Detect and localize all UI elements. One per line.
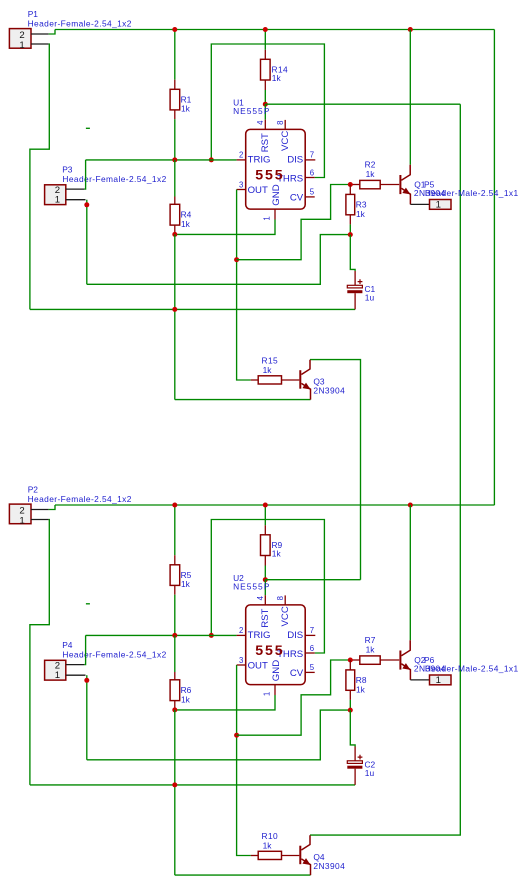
wire Q3 collector to VCC-B rail riser [310, 360, 361, 580]
svg-text:TRIG: TRIG [248, 155, 271, 166]
svg-text:3: 3 [239, 656, 243, 665]
node top rail / R5 [172, 503, 177, 508]
node top rail / R1 [172, 27, 177, 32]
svg-text:CV: CV [290, 668, 304, 679]
svg-text:Header-Female-2.54_1x2: Header-Female-2.54_1x2 [28, 494, 132, 504]
wire P4 pin2 riser [84, 635, 85, 664]
wire VCC-A rail riser to Q4 collector [310, 104, 460, 835]
svg-text:Header-Male-2.54_1x1: Header-Male-2.54_1x1 [425, 664, 519, 674]
svg-text:NE555P: NE555P [233, 106, 270, 116]
wire OUT net [237, 190, 251, 381]
resistor R9 [264, 505, 266, 525]
label C2 plus [358, 755, 363, 760]
svg-text:DIS: DIS [287, 155, 303, 166]
wire P1 pin2 to top rail [49, 30, 55, 35]
wire P4 pin1 drop [86, 675, 88, 760]
svg-text:Header-Female-2.54_1x2: Header-Female-2.54_1x2 [62, 174, 166, 184]
svg-text:5: 5 [310, 663, 315, 672]
svg-text:RST: RST [260, 608, 271, 627]
svg-text:6: 6 [310, 168, 314, 177]
resistor R14 [264, 30, 266, 50]
svg-text:VCC: VCC [280, 131, 291, 151]
svg-text:1k: 1k [366, 169, 376, 179]
svg-text:R3: R3 [356, 200, 367, 210]
svg-text:1: 1 [55, 195, 60, 206]
svg-text:1k: 1k [366, 644, 376, 654]
svg-text:6: 6 [310, 644, 314, 653]
svg-text:R6: R6 [181, 685, 192, 695]
resistor R7 [350, 659, 360, 661]
pin 4 RST stub [264, 595, 266, 605]
pin 4 RST stub [264, 120, 266, 130]
pin 3 OUT stub [237, 189, 246, 191]
wire emitter rail [175, 874, 311, 876]
svg-text:Header-Female-2.54_1x2: Header-Female-2.54_1x2 [28, 19, 132, 29]
pin 1 GND stub [274, 209, 276, 219]
resistor R8 [349, 660, 351, 670]
svg-text:R8: R8 [356, 675, 367, 685]
wire top rail [55, 29, 494, 31]
svg-text:TRIG: TRIG [248, 630, 271, 641]
pin 2 TRIG stub [237, 634, 246, 636]
svg-text:VCC: VCC [280, 606, 291, 626]
wire P3 pin1 drop [86, 200, 88, 285]
node GND column / cap rail [172, 782, 177, 787]
svg-text:1u: 1u [365, 293, 375, 303]
svg-text:OUT: OUT [248, 661, 268, 672]
svg-text:1: 1 [263, 692, 272, 696]
wire pin4 link [264, 104, 266, 120]
resistor R1 [174, 30, 176, 80]
svg-text:3: 3 [239, 180, 243, 189]
svg-text:Header-Female-2.54_1x2: Header-Female-2.54_1x2 [62, 649, 166, 659]
op-amp U1 NE555P timer [237, 120, 316, 221]
resistor R4 [174, 160, 176, 197]
node GND / R4 bottom [172, 232, 177, 237]
node R3 bottom [348, 708, 353, 713]
resistor R5 [174, 505, 176, 555]
wire OUT net [237, 665, 251, 856]
resistor R15 [251, 379, 258, 381]
wire VCC rail [265, 103, 460, 105]
wire TRIG rail [86, 634, 237, 636]
svg-text:1k: 1k [263, 365, 273, 375]
node R2 R3 junction [348, 658, 353, 663]
svg-text:1k: 1k [181, 694, 191, 704]
svg-text:NE555P: NE555P [233, 582, 270, 592]
svg-text:2N3904: 2N3904 [313, 385, 345, 395]
svg-text:1: 1 [19, 515, 24, 526]
wire top rail [55, 504, 494, 506]
svg-text:7: 7 [310, 151, 314, 160]
wire R3 bottom to capacitor [350, 710, 355, 746]
svg-text:1: 1 [55, 670, 60, 681]
svg-text:2: 2 [239, 626, 243, 635]
capacitor C1 polarized [354, 271, 356, 285]
wire GND column [174, 710, 176, 875]
wire TRIG to THRS link [211, 44, 324, 178]
wire cap bottom rail [30, 308, 355, 310]
wire P3 pin2 riser [84, 160, 85, 189]
svg-text:1: 1 [436, 199, 441, 210]
node top rail / collector riser [408, 503, 413, 508]
node top rail / R9 [263, 503, 268, 508]
node top rail / R14 [263, 27, 268, 32]
transistor Q2 2N3904 NPN [400, 640, 410, 680]
pin 5 CV stub [305, 671, 315, 673]
node TRIG rail / R column [172, 633, 177, 638]
wire GND pin link [175, 220, 275, 235]
pin 1 GND stub [274, 685, 276, 695]
wire OUT to R2-R3 node [237, 660, 351, 735]
resistor R6 [174, 635, 176, 672]
wire P1 pin1 down-left [30, 44, 49, 309]
node GND column / cap rail [172, 307, 177, 312]
pin 5 CV stub [305, 196, 315, 198]
svg-text:2N3904: 2N3904 [313, 861, 345, 871]
svg-text:1k: 1k [272, 73, 282, 83]
wire collector riser [409, 505, 411, 640]
svg-text:8: 8 [276, 596, 285, 600]
svg-text:1: 1 [19, 40, 24, 51]
node TRIG rail / link [209, 633, 214, 638]
wire P2 pin1 down-left [30, 520, 49, 785]
wire stub dash [86, 603, 90, 605]
svg-text:R4: R4 [181, 209, 192, 219]
wire GND column [174, 234, 176, 399]
node GND / R4 bottom [172, 707, 177, 712]
svg-text:2: 2 [239, 151, 243, 160]
header P3 Header-Female-2.54_1x2 [45, 185, 66, 205]
wire cap bottom rail [30, 784, 355, 786]
header P6 Header-Male-2.54_1x1 [410, 679, 429, 681]
transistor Q3 2N3904 NPN [300, 360, 310, 400]
op-amp U2 NE555P timer [237, 595, 316, 696]
svg-text:1k: 1k [263, 840, 273, 850]
wire stub dash [86, 127, 90, 129]
capacitor C2 polarized [354, 747, 356, 761]
wire GND pin link [175, 695, 275, 710]
node OUT net branch [234, 257, 239, 262]
svg-text:1: 1 [263, 216, 272, 220]
wire collector riser [409, 30, 411, 165]
resistor R3 [349, 185, 351, 195]
node TRIG rail / R column [172, 157, 177, 162]
wire P2 pin2 to top rail [49, 505, 55, 510]
svg-text:Header-Male-2.54_1x1: Header-Male-2.54_1x1 [425, 188, 519, 198]
svg-text:1: 1 [436, 675, 441, 686]
svg-text:OUT: OUT [248, 185, 268, 196]
svg-text:555: 555 [255, 168, 284, 184]
pin 6 THRS stub [305, 652, 315, 654]
resistor R10 [251, 855, 258, 857]
node R3 bottom [348, 232, 353, 237]
svg-text:1k: 1k [181, 219, 191, 229]
wire OUT to R2-R3 node [237, 185, 351, 260]
svg-text:GND: GND [271, 184, 282, 205]
pin 8 VCC stub [284, 595, 286, 605]
node VCC rail / pin4 column [263, 577, 268, 582]
node top rail / collector riser [408, 27, 413, 32]
svg-text:1u: 1u [365, 768, 375, 778]
svg-text:555: 555 [255, 643, 284, 659]
node TRIG rail / link [209, 157, 214, 162]
svg-text:5: 5 [310, 188, 315, 197]
resistor R2 [350, 184, 360, 186]
header P1 Header-Female-2.54_1x2 [9, 29, 31, 49]
svg-text:4: 4 [256, 595, 265, 600]
svg-text:R7: R7 [365, 635, 376, 645]
svg-text:7: 7 [310, 626, 314, 635]
transistor Q4 2N3904 NPN [300, 835, 310, 875]
wire VCC rail [265, 579, 360, 581]
svg-text:RST: RST [260, 133, 271, 152]
svg-text:1k: 1k [356, 209, 366, 219]
svg-text:DIS: DIS [287, 630, 303, 641]
wire TRIG to THRS link [211, 520, 324, 654]
svg-text:GND: GND [271, 660, 282, 681]
wire TRIG rail [86, 159, 237, 161]
header P5 Header-Male-2.54_1x1 [410, 203, 429, 205]
pin 7 DIS stub [305, 634, 315, 636]
node P3 pin1 [84, 202, 89, 207]
label C1 plus [358, 279, 363, 284]
pin 8 VCC stub [284, 120, 286, 129]
header P2 Header-Female-2.54_1x2 [9, 504, 31, 524]
node OUT net branch [234, 733, 239, 738]
svg-text:1k: 1k [181, 579, 191, 589]
wire R3 bottom to capacitor [350, 235, 355, 271]
wire emitter rail [175, 399, 311, 401]
pin 3 OUT stub [237, 664, 246, 666]
header P4 Header-Female-2.54_1x2 [45, 660, 66, 680]
transistor Q1 2N3904 NPN [400, 165, 410, 205]
pin 2 TRIG stub [237, 159, 246, 161]
wire R3 net rail [87, 235, 351, 285]
wire right outer riser (top rail to bottom rail) [493, 30, 495, 506]
svg-text:R2: R2 [365, 159, 376, 169]
svg-text:CV: CV [290, 192, 304, 203]
svg-text:4: 4 [256, 120, 265, 125]
svg-text:1k: 1k [272, 549, 282, 559]
node VCC rail / pin4 column [263, 102, 268, 107]
node P4 pin1 [84, 678, 89, 683]
svg-text:8: 8 [276, 121, 285, 125]
wire pin4 link [264, 580, 266, 596]
pin 7 DIS stub [305, 159, 315, 161]
pin 6 THRS stub [305, 177, 315, 179]
wire R3 net rail [87, 710, 351, 760]
node R2 R3 junction [348, 182, 353, 187]
svg-text:1k: 1k [181, 104, 191, 114]
svg-text:1k: 1k [356, 685, 366, 695]
